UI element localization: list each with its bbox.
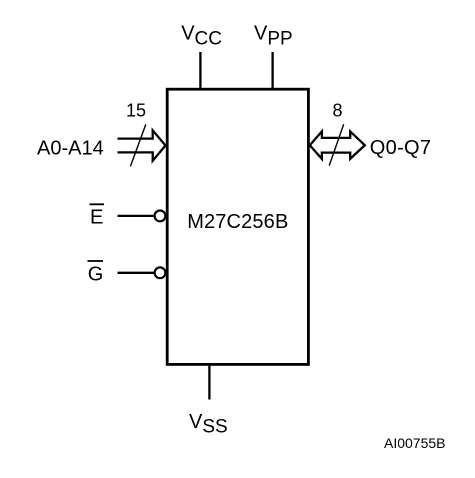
svg-text:15: 15 — [126, 101, 146, 121]
svg-text:8: 8 — [333, 101, 343, 121]
bus width slash (8 lines) — [329, 124, 344, 165]
svg-text:VCC: VCC — [181, 23, 222, 50]
wire VCC pin — [199, 52, 201, 89]
IC body U1 M27C256B — [167, 89, 308, 364]
overline G — [88, 260, 104, 262]
svg-text:AI00755B: AI00755B — [384, 435, 446, 451]
wire G input — [118, 272, 155, 274]
address bus arrow A0-A14 — [118, 130, 166, 160]
svg-text:VPP: VPP — [254, 23, 293, 50]
svg-text:M27C256B: M27C256B — [187, 211, 288, 233]
svg-text:A0-A14: A0-A14 — [37, 137, 104, 159]
svg-text:VSS: VSS — [189, 411, 228, 438]
wire VPP pin — [271, 52, 273, 89]
svg-text:Q0-Q7: Q0-Q7 — [370, 137, 432, 159]
data bus arrow Q0-Q7 — [310, 131, 365, 159]
bus width slash (15 lines) — [130, 124, 145, 166]
inversion bubble E — [155, 211, 166, 222]
svg-text:E: E — [90, 206, 103, 228]
svg-text:G: G — [88, 264, 104, 286]
wire VSS pin — [208, 364, 210, 399]
inversion bubble G — [155, 267, 166, 278]
wire E input — [118, 215, 155, 217]
overline E — [90, 203, 105, 205]
